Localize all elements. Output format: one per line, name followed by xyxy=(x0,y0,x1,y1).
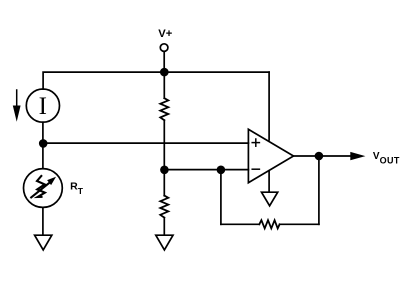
current direction arrow xyxy=(13,90,21,122)
resistor R2 xyxy=(160,196,168,218)
node rail junction xyxy=(160,68,169,77)
wire feedback bottom right xyxy=(280,223,319,225)
svg-text:I: I xyxy=(39,93,47,120)
wire R1 to inverting node xyxy=(163,120,165,170)
wire feedback right vertical xyxy=(318,156,320,224)
V+ terminal xyxy=(160,44,168,52)
svg-text:V+: V+ xyxy=(158,28,172,40)
wire rail junction down to R1 xyxy=(163,72,165,98)
wire R2 to ground xyxy=(163,218,165,235)
wire thermistor to ground xyxy=(42,207,44,234)
wire inverting input line xyxy=(164,169,248,171)
op-amp U1 xyxy=(248,129,293,182)
wire feedback left vertical xyxy=(220,170,222,225)
wire top rail xyxy=(43,72,269,89)
node noninverting xyxy=(39,139,48,148)
wire V+ terminal down xyxy=(163,52,165,72)
wire op-amp output xyxy=(294,155,351,157)
ground (left) xyxy=(35,235,52,250)
wire feedback bottom left xyxy=(221,223,259,225)
wire inverting node down to R2 xyxy=(163,170,165,196)
node output xyxy=(315,152,324,161)
thermistor RT xyxy=(24,169,63,208)
resistor R3 (feedback) xyxy=(259,220,279,228)
wire noninverting input line xyxy=(43,142,248,144)
ground (middle) xyxy=(156,235,173,250)
node feedback tap xyxy=(217,166,226,175)
output arrowhead xyxy=(350,152,365,160)
wire op-amp negative supply xyxy=(268,171,270,192)
current source I1 xyxy=(26,89,59,122)
ground (op-amp) xyxy=(262,192,278,206)
resistor R1 xyxy=(160,98,168,120)
node inverting xyxy=(160,166,169,175)
wire op-amp positive supply xyxy=(268,72,270,140)
wire current source to node xyxy=(42,122,44,143)
wire node down to thermistor xyxy=(42,143,44,169)
